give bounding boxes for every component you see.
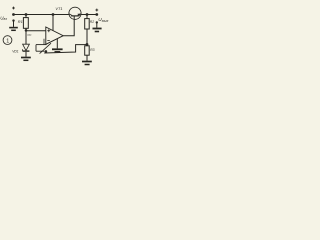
resistor R2 <box>85 19 90 29</box>
node input lower terminal <box>12 19 14 21</box>
wire feedback under opamp <box>44 45 87 53</box>
transistor VT1 <box>69 7 81 19</box>
svg-text:1: 1 <box>6 38 9 44</box>
svg-text:R1: R1 <box>18 19 23 24</box>
ground opamp <box>52 49 63 51</box>
wire R1 bottom lead <box>25 28 27 30</box>
wire to opamp noninverting input <box>26 30 46 32</box>
svg-text:R2: R2 <box>90 20 94 24</box>
wire opamp ground stem <box>56 39 58 49</box>
ground divider <box>82 62 92 65</box>
wire inverting input lead <box>43 39 45 45</box>
node R1 zener opamp junction <box>25 29 28 32</box>
wire opamp output <box>63 16 74 35</box>
wire R3 top lead <box>86 44 88 45</box>
ground output <box>93 29 102 32</box>
svg-text:VD1: VD1 <box>12 49 19 53</box>
node output plus terminal <box>95 13 98 16</box>
trimmer arrow <box>40 43 51 53</box>
ground zener <box>21 58 31 61</box>
wire top rail right segment <box>81 14 97 16</box>
svg-text:Uвх: Uвх <box>0 16 7 22</box>
node divider tap junction <box>86 43 89 46</box>
node R1 top junction <box>25 13 28 16</box>
wire top rail left segment <box>14 14 69 16</box>
zener diode VD1 <box>23 44 30 51</box>
resistor R1 <box>23 18 28 29</box>
node feedback blob <box>45 50 48 53</box>
svg-text:VT1: VT1 <box>55 6 62 11</box>
node divider top junction <box>86 13 89 16</box>
node output lower terminal <box>96 21 98 23</box>
op-amp plus input marker <box>47 29 50 32</box>
node opamp supply junction <box>52 13 55 16</box>
wire R3 ground stem <box>86 55 88 61</box>
wire opamp positive supply <box>52 15 54 31</box>
ground input <box>9 28 18 31</box>
svg-text:R3: R3 <box>90 48 94 52</box>
node input plus terminal <box>12 13 15 16</box>
wire zener ground stem <box>25 52 27 57</box>
svg-text:Uвых: Uвых <box>98 17 109 23</box>
op-amp minus input marker <box>47 40 50 42</box>
input plus polarity sign <box>12 7 15 10</box>
output plus polarity sign <box>95 9 98 12</box>
op-amp DA1 <box>46 27 63 44</box>
trimmer resistor feedback box <box>36 45 47 52</box>
node figure number circle <box>3 36 12 45</box>
wire R2 to junction <box>86 29 88 44</box>
wire R1 top lead <box>25 15 27 18</box>
wire junction to zener <box>25 30 27 44</box>
wire output ground stem <box>96 22 98 27</box>
wire input ground stem <box>13 21 15 27</box>
resistor R3 <box>85 46 90 55</box>
wire R2 top lead <box>86 15 88 19</box>
